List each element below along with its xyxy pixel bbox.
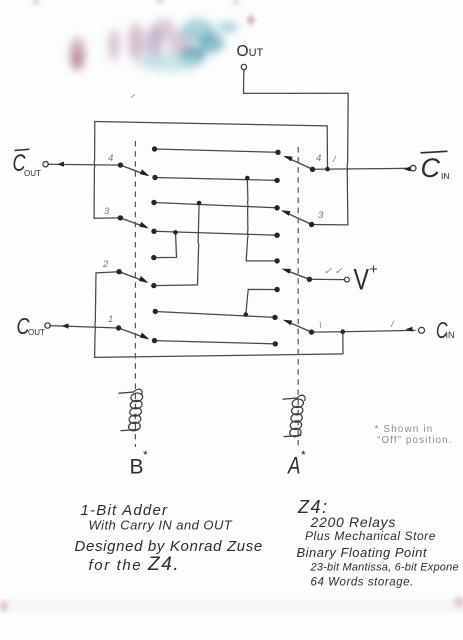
wire vertical V1 row C to row F (198, 203, 200, 285)
svg-text:4: 4 (316, 153, 321, 164)
wire vertical V2 row B to row E right (246, 178, 248, 261)
node row D right (274, 233, 279, 238)
svg-text:✓ ✓: ✓ ✓ (324, 266, 343, 277)
node row B left (152, 175, 157, 180)
svg-text:64 Words storage.: 64 Words storage. (311, 577, 414, 589)
node row G left (153, 309, 158, 314)
arrow Cin-bar (404, 167, 411, 172)
switch S8 arm (285, 321, 312, 333)
watercolor stain group (70, 18, 239, 72)
dashed relay line B (134, 141, 136, 447)
svg-text:\: \ (319, 320, 322, 331)
svg-text:4: 4 (108, 153, 113, 164)
label V+ (354, 261, 378, 297)
svg-text:C: C (421, 153, 441, 183)
svg-text:3: 3 (318, 210, 324, 221)
wire row F left stub (154, 284, 198, 287)
node pivot S4 (116, 325, 121, 330)
terminal Cin-bar circle (410, 165, 416, 171)
svg-text:2200 Relays: 2200 Relays (310, 514, 397, 530)
svg-text:1-Bit Adder: 1-Bit Adder (81, 502, 169, 519)
wire row F right stub down to row G (246, 289, 277, 314)
contact dots (116, 146, 345, 346)
wire Cin lead (312, 330, 416, 332)
node row H right (273, 341, 278, 346)
node row C left (151, 200, 156, 205)
svg-text:*: * (143, 448, 148, 462)
wire Cout-bar lead (48, 163, 121, 166)
node row B right (274, 178, 279, 183)
svg-text:for the Z4.: for the Z4. (89, 554, 181, 575)
schematic strokes (48, 71, 415, 358)
node pivot S1 (118, 162, 123, 167)
dashed relay line A (297, 147, 299, 448)
svg-text:Binary Floating Point: Binary Floating Point (297, 545, 428, 560)
arrowhead S4 (140, 333, 149, 340)
node Cin-bar top-edge junction (325, 167, 330, 172)
node row C right (274, 205, 279, 210)
svg-text:V: V (354, 264, 370, 297)
arrow Cin (406, 327, 413, 332)
terminal Cin circle (419, 327, 425, 333)
svg-text:* Shown in: * Shown in (375, 424, 434, 435)
switch S3 arm (119, 272, 146, 282)
node pivot S8 (309, 329, 314, 334)
svg-text:IN: IN (446, 330, 455, 340)
switch S1 arm (121, 165, 148, 175)
switch S4 arm (119, 328, 148, 339)
svg-text:A: A (286, 453, 300, 480)
node row A left (152, 146, 157, 151)
relay coil A (283, 395, 306, 437)
wire row A (155, 149, 279, 152)
wire Cout lead (50, 326, 119, 328)
svg-text:“Off” position.: “Off” position. (377, 435, 453, 446)
terminal V+ circle (345, 277, 350, 282)
wire row C (154, 203, 277, 208)
svg-text:IN: IN (441, 171, 450, 181)
svg-text:OUT: OUT (28, 328, 45, 337)
switch S7 arm (284, 269, 310, 279)
node row F left (151, 283, 156, 288)
arrowhead S8 (283, 320, 292, 326)
label relay A (286, 448, 306, 480)
wire row E left stub up to row D (154, 232, 177, 257)
wire OUT drop to Cin-bar node (347, 93, 348, 170)
node row C mid junction (197, 201, 202, 206)
arrowhead S5 (283, 156, 292, 161)
wire bottom right riser (342, 332, 344, 354)
note shown in off position (375, 424, 453, 446)
arrowhead S6 (281, 210, 290, 216)
svg-text:+: + (370, 261, 378, 277)
node row F right (274, 287, 279, 292)
stray pencil tick (131, 95, 136, 98)
node pivot S6 (309, 222, 314, 227)
node pivot S2 (118, 215, 123, 220)
label Cin (436, 317, 455, 343)
relay coil B (119, 389, 144, 431)
wire top edge drop to Cin-bar wire (326, 126, 328, 169)
label Cout (17, 313, 46, 339)
switch S5 arm (285, 157, 312, 170)
node pivot S7 (307, 277, 312, 282)
wire V+ lead (309, 278, 344, 280)
wire Cin-bar lead (313, 168, 411, 169)
switch S2 arm (120, 218, 146, 228)
svg-text:3: 3 (104, 206, 110, 217)
wire box left edge (94, 122, 120, 219)
terminal Cout-bar circle (43, 162, 48, 167)
contact number labels (102, 153, 395, 331)
label Cin-bar (421, 151, 450, 183)
wire row H (155, 341, 276, 344)
svg-text:1: 1 (108, 314, 113, 325)
arrow Cout (62, 323, 69, 328)
node Cin bottom junction (341, 329, 346, 334)
wire box top edge (95, 122, 327, 126)
wire row D (154, 231, 277, 235)
node row A right (275, 150, 280, 155)
node row H left (152, 338, 157, 343)
label Cout-bar (13, 149, 42, 178)
svg-text:With Carry IN and OUT: With Carry IN and OUT (89, 518, 233, 533)
node pivot S5 (310, 167, 315, 172)
node row B mid junction (245, 176, 250, 181)
svg-text:*: * (301, 448, 306, 462)
node pivot S3 (116, 269, 121, 274)
node row E left (151, 255, 156, 260)
terminal OUT circle (241, 64, 246, 69)
node row G right (272, 315, 277, 320)
faint scanner band bottom (0, 599, 463, 613)
wire row E right stub (246, 260, 277, 262)
node row G mid junction (244, 312, 249, 317)
arrow Cout-bar (57, 162, 64, 167)
node row D mid junction (173, 230, 178, 235)
wire box bottom edge (95, 354, 343, 358)
wire lower-left feed (95, 272, 120, 358)
wire Cin-bar node down to switch S6 pivot (312, 171, 348, 225)
switch S6 arm (283, 211, 312, 224)
node row D left (151, 229, 156, 234)
arrowhead S2 (139, 222, 148, 229)
svg-text:B: B (130, 456, 144, 479)
arrowhead S1 (140, 169, 149, 176)
node row E right (274, 258, 279, 263)
caption left column (75, 502, 263, 575)
svg-text:OUT: OUT (24, 169, 41, 178)
caption right column (297, 497, 459, 589)
svg-text:Plus Mechanical Store: Plus Mechanical Store (305, 529, 436, 543)
terminal Cout circle (45, 323, 50, 328)
svg-text:23-bit Mantissa, 6-bit Expone: 23-bit Mantissa, 6-bit Expone (310, 562, 459, 574)
wire row B (155, 178, 277, 181)
node OUT lead wire (244, 71, 349, 94)
svg-text:2: 2 (102, 259, 109, 270)
label relay B (130, 448, 149, 479)
arrowhead S7 (282, 269, 291, 274)
arrowhead S3 (139, 276, 148, 283)
wire row G (155, 312, 275, 318)
svg-text:Designed by Konrad Zuse: Designed by Konrad Zuse (75, 538, 263, 555)
